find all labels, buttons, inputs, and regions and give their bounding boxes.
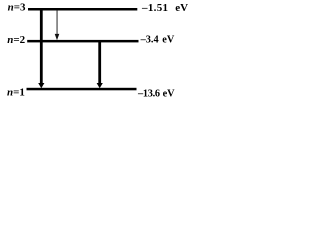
transition arrow n=2 to n=1 (shaft) [98,42,101,84]
svg-text:n=2: n=2 [7,34,25,46]
level line n=1 [27,88,137,91]
transition arrow n=2 to n=1 (head) [97,83,103,88]
transition arrow n=3 to n=1 (head) [38,83,44,88]
level line n=2 [27,40,138,43]
svg-text:–13.6eV: –13.6eV [137,88,175,99]
level line n=3 [28,8,137,11]
svg-text:–3.4eV: –3.4eV [140,34,175,45]
transition arrow n=3 to n=1 (shaft) [40,10,43,84]
svg-text:n=1: n=1 [7,87,25,99]
svg-text:–1.51eV: –1.51eV [141,2,188,14]
transition arrow n=3 to n=2 (head) [55,34,60,40]
transition arrow n=3 to n=2 (shaft, thin) [57,10,58,34]
svg-text:n=3: n=3 [8,2,26,14]
